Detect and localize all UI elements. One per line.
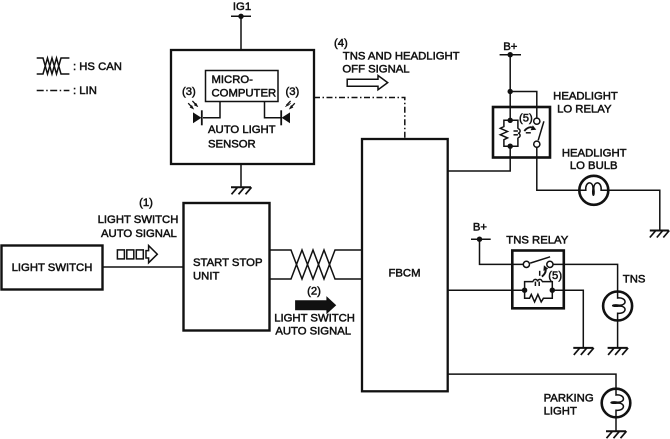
light switch box [2, 246, 103, 290]
junction relay coil bottom [508, 144, 513, 149]
wire relay coil to FBCM [448, 146, 511, 171]
wire B+ to TNS relay switch [480, 239, 524, 264]
headlight lo bulb [579, 176, 608, 205]
ground (parking light) [606, 431, 627, 438]
label LIGHT SWITCH AUTO SIGNAL (2) [274, 313, 355, 338]
svg-text:IG1: IG1 [233, 1, 251, 13]
ground (TNS bulb) [608, 348, 629, 355]
signal symbol (1): three squares and hollow arrow [117, 246, 157, 263]
legend HS CAN twisted-pair symbol [37, 58, 70, 74]
junction above headlight relay [508, 89, 513, 94]
svg-text:LIGHT SWITCH: LIGHT SWITCH [98, 214, 179, 226]
svg-text:AUTO SIGNAL: AUTO SIGNAL [275, 326, 351, 338]
svg-text:PARKING: PARKING [544, 393, 594, 405]
svg-text:OFF SIGNAL: OFF SIGNAL [342, 63, 409, 75]
wire microcomputer to right photodiode [265, 102, 282, 118]
svg-text:MICRO-: MICRO- [212, 74, 254, 86]
ground (headlight bulb) [650, 231, 670, 238]
svg-text:(1): (1) [139, 197, 153, 209]
wire TNS coil to ground [552, 290, 583, 348]
junction TNS coil right [550, 288, 555, 293]
svg-text:AUTO SIGNAL: AUTO SIGNAL [101, 228, 177, 240]
svg-text:TNS: TNS [623, 273, 646, 285]
svg-text:(3): (3) [286, 86, 300, 98]
photodiode D1 (left) [188, 101, 202, 125]
svg-text:AUTO LIGHT: AUTO LIGHT [208, 124, 276, 136]
wire sensor to ground [240, 164, 242, 187]
svg-text:(2): (2) [307, 286, 321, 298]
svg-text:(3): (3) [182, 86, 196, 98]
label AUTO LIGHT SENSOR [208, 124, 276, 150]
svg-text:: HS CAN: : HS CAN [73, 61, 122, 73]
svg-text:LO BULB: LO BULB [570, 160, 618, 172]
wire headlight bulb to ground [608, 190, 660, 230]
power source IG1 [231, 1, 251, 19]
label HEADLIGHT LO BULB [562, 148, 627, 172]
power source B+ (TNS relay) [471, 222, 491, 242]
svg-text:COMPUTER: COMPUTER [212, 87, 277, 99]
wire LIN dash-dot from sensor to FBCM [314, 98, 405, 140]
svg-text:SENSOR: SENSOR [208, 138, 256, 150]
HS CAN twisted pair wires between start stop unit and FBCM [270, 250, 362, 279]
auto light sensor box [171, 50, 314, 164]
svg-text:START STOP: START STOP [193, 257, 262, 269]
relay coil inside TNS relay (top branch) [525, 279, 553, 290]
label PARKING LIGHT [544, 393, 594, 418]
ground (auto light sensor) [231, 187, 252, 194]
photodiode D2 (right) [281, 101, 295, 125]
microcomputer [206, 71, 279, 102]
wire IG1 to auto light sensor [240, 16, 242, 50]
junction relay coil top [508, 118, 513, 123]
switch contacts and arm (TNS relay) [523, 257, 553, 268]
tns relay box [512, 251, 564, 309]
svg-text:HEADLIGHT: HEADLIGHT [562, 148, 627, 160]
wire TNS bulb to ground [617, 321, 619, 348]
ground (TNS relay coil) [573, 348, 594, 355]
wire B+ down into relay coil [509, 55, 511, 121]
power source B+ (headlight relay) [500, 41, 521, 58]
svg-text:TNS RELAY: TNS RELAY [506, 235, 568, 247]
svg-text:LIGHT SWITCH: LIGHT SWITCH [12, 262, 93, 274]
actuator linkage and arrow (TNS relay) [540, 265, 549, 276]
svg-text:B+: B+ [503, 41, 518, 53]
svg-text:LO RELAY: LO RELAY [557, 104, 612, 116]
resistor inside headlight relay [500, 120, 510, 146]
label TNS AND HEADLIGHT OFF SIGNAL [342, 51, 459, 76]
wire TNS coil to FBCM [448, 289, 525, 291]
signal arrow (4) hollow right arrow [347, 76, 388, 90]
wire light switch to start stop unit [103, 266, 184, 268]
svg-text:UNIT: UNIT [193, 270, 219, 282]
actuator linkage and arrow (headlight relay) [524, 125, 536, 132]
junction TNS coil left [522, 288, 527, 293]
svg-text:HEADLIGHT: HEADLIGHT [553, 90, 618, 102]
svg-text:LIGHT SWITCH: LIGHT SWITCH [274, 313, 355, 325]
tns bulb [603, 292, 632, 321]
switch contacts and arm (headlight relay) [534, 118, 544, 147]
legend LIN dash-dot sample [37, 90, 70, 92]
relay coil inside headlight relay [510, 120, 520, 146]
wire microcomputer to left photodiode [203, 102, 220, 118]
svg-text:(4): (4) [334, 38, 348, 50]
wire junction to switch contact [510, 92, 537, 118]
svg-text:LIGHT: LIGHT [544, 406, 577, 418]
svg-text:(5): (5) [519, 113, 533, 125]
label HEADLIGHT LO RELAY [553, 90, 618, 115]
FBCM box [362, 139, 448, 391]
svg-text:FBCM: FBCM [388, 268, 420, 280]
headlight lo relay box [493, 107, 550, 158]
parking light bulb [602, 389, 631, 418]
label LIGHT SWITCH AUTO SIGNAL (1) [98, 214, 179, 240]
svg-text:(5): (5) [548, 270, 562, 282]
svg-text:TNS AND HEADLIGHT: TNS AND HEADLIGHT [343, 51, 460, 63]
wire TNS relay contact to TNS bulb [553, 264, 618, 291]
wire FBCM to parking light [448, 374, 616, 389]
resistor inside TNS relay (bottom branch) [525, 290, 553, 302]
svg-text:: LIN: : LIN [73, 85, 97, 97]
wire parking light to ground [615, 417, 617, 431]
svg-text:B+: B+ [473, 222, 488, 234]
signal arrow (2) filled right arrow [296, 297, 336, 313]
wire relay contact to headlight bulb [537, 147, 580, 190]
start stop unit box [184, 203, 270, 331]
